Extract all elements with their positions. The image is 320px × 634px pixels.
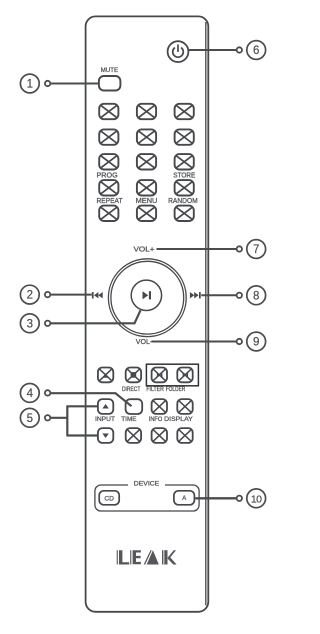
svg-text:8: 8 <box>253 290 259 302</box>
svg-text:TIME: TIME <box>121 416 136 423</box>
svg-text:1: 1 <box>27 79 33 91</box>
svg-text:10: 10 <box>251 493 262 505</box>
svg-text:3: 3 <box>27 318 33 330</box>
svg-text:REPEAT: REPEAT <box>97 196 123 205</box>
svg-text:MENU: MENU <box>136 196 158 205</box>
svg-text:INPUT: INPUT <box>95 416 115 423</box>
svg-text:6: 6 <box>253 45 259 57</box>
svg-text:MUTE: MUTE <box>101 67 118 74</box>
svg-text:5: 5 <box>27 413 33 425</box>
svg-text:9: 9 <box>253 337 259 349</box>
svg-text:2: 2 <box>27 290 33 302</box>
svg-text:CD: CD <box>104 495 114 502</box>
svg-text:VOL-: VOL- <box>136 337 153 346</box>
svg-text:4: 4 <box>27 388 34 400</box>
svg-text:STORE: STORE <box>173 171 195 180</box>
svg-text:DIRECT: DIRECT <box>122 386 141 393</box>
svg-text:DISPLAY: DISPLAY <box>164 416 193 423</box>
svg-text:7: 7 <box>253 244 259 256</box>
svg-text:A: A <box>182 496 186 502</box>
svg-text:INFO: INFO <box>149 416 163 423</box>
svg-text:DEVICE: DEVICE <box>134 481 159 488</box>
svg-text:PROG: PROG <box>97 171 118 180</box>
svg-text:FILTER: FILTER <box>146 386 164 393</box>
svg-text:RANDOM: RANDOM <box>168 196 198 205</box>
svg-text:FOLDER: FOLDER <box>166 386 186 393</box>
svg-text:VOL+: VOL+ <box>134 244 155 253</box>
